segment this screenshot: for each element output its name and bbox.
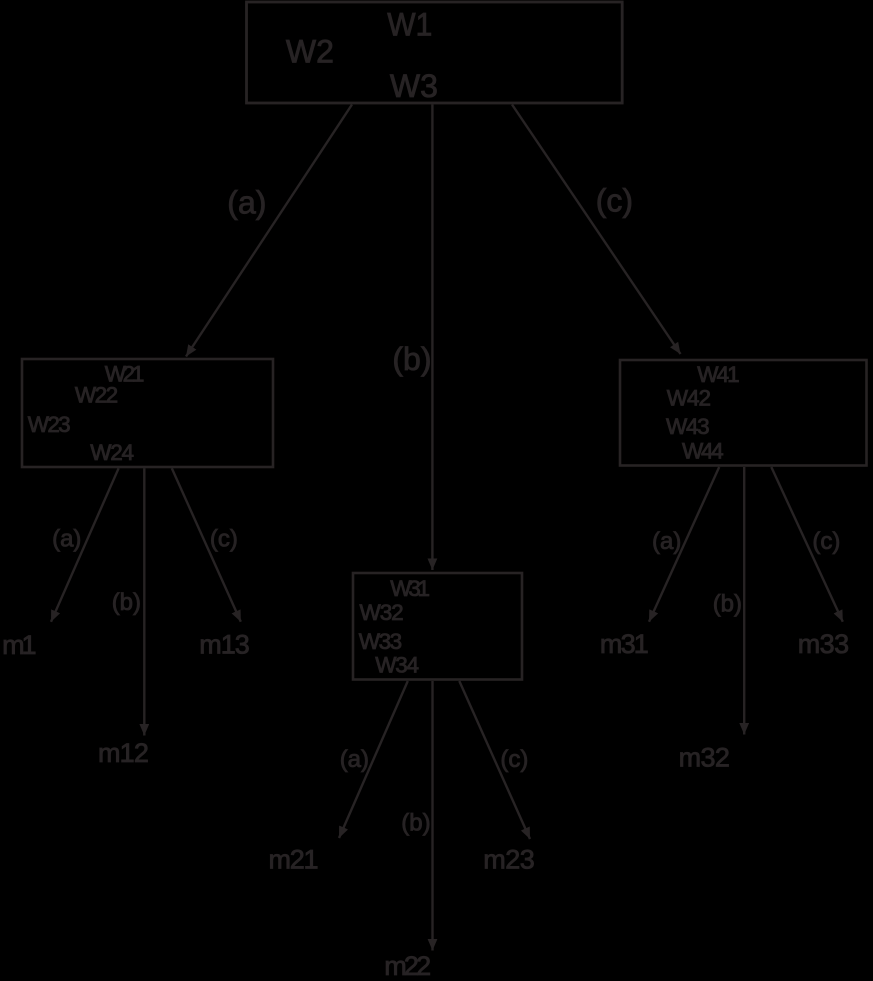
svg-text:m12: m12 — [98, 738, 149, 768]
svg-text:W44: W44 — [682, 439, 724, 464]
svg-text:m33: m33 — [798, 629, 850, 659]
svg-text:W34: W34 — [375, 652, 419, 677]
svg-text:(c): (c) — [812, 528, 840, 555]
svg-text:(c): (c) — [500, 746, 528, 773]
svg-text:W43: W43 — [666, 414, 710, 439]
svg-text:W23: W23 — [28, 412, 71, 437]
svg-text:W1: W1 — [387, 6, 432, 42]
svg-text:(a): (a) — [52, 526, 81, 553]
svg-text:(b): (b) — [401, 809, 430, 836]
svg-text:W31: W31 — [390, 576, 430, 601]
svg-text:(c): (c) — [596, 183, 633, 219]
svg-text:(a): (a) — [340, 746, 369, 773]
svg-text:m22: m22 — [384, 951, 431, 981]
svg-text:W2: W2 — [286, 33, 334, 69]
svg-text:(b): (b) — [112, 589, 141, 616]
svg-text:(a): (a) — [652, 528, 681, 555]
svg-text:m32: m32 — [679, 743, 730, 773]
svg-text:m21: m21 — [269, 845, 319, 875]
svg-text:m1: m1 — [2, 630, 36, 660]
svg-text:m13: m13 — [199, 630, 250, 660]
svg-text:(a): (a) — [227, 184, 266, 220]
svg-text:W32: W32 — [360, 600, 404, 625]
svg-text:W33: W33 — [359, 629, 402, 654]
svg-text:W3: W3 — [390, 68, 438, 104]
svg-text:W22: W22 — [75, 383, 118, 408]
svg-text:W42: W42 — [667, 386, 711, 411]
svg-text:W41: W41 — [697, 362, 739, 387]
svg-text:W24: W24 — [90, 440, 134, 465]
svg-text:m31: m31 — [600, 629, 649, 659]
svg-text:m23: m23 — [483, 845, 535, 875]
svg-text:(b): (b) — [713, 591, 742, 618]
svg-text:(c): (c) — [210, 526, 238, 553]
svg-text:(b): (b) — [392, 341, 431, 377]
